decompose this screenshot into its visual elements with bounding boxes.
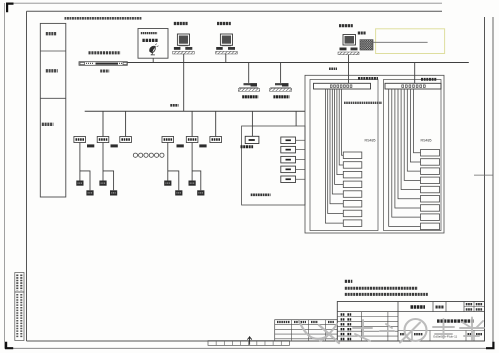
cabinet label 3 <box>42 123 54 126</box>
notes line 2 <box>345 293 428 296</box>
printer P1 <box>360 40 373 50</box>
title block header verticals <box>432 302 434 312</box>
frame inner bottom line <box>27 340 485 342</box>
signal panel II bar <box>385 83 441 89</box>
wire panel I feeder 6 <box>330 89 343 204</box>
svg-text:RS485: RS485 <box>421 139 432 143</box>
cabinet divider 2 <box>40 97 66 99</box>
wire drop to signal panel II <box>414 63 416 84</box>
frame inner top line <box>27 10 443 12</box>
title block bottom row <box>398 330 485 332</box>
wire panel I feeder 1 <box>342 89 344 155</box>
wire drop to bay device 1 <box>102 111 104 136</box>
wire ethernet bus <box>127 62 469 64</box>
wire tag 4 <box>199 144 206 147</box>
title block signature grid <box>337 316 398 318</box>
title block outer box <box>337 302 484 342</box>
protection relay B8 <box>421 214 440 221</box>
wire server1 drop to main bus <box>183 54 185 112</box>
protection relay B7 <box>421 205 440 212</box>
server 1 stand <box>179 45 188 47</box>
switch SW1 body <box>79 62 127 66</box>
frame inner right line <box>484 17 486 341</box>
wire panel II feeder 1 <box>414 89 421 153</box>
meter box upper <box>164 181 171 186</box>
protection relay B9 <box>421 223 440 230</box>
server 2 label <box>217 22 231 25</box>
cabinet column box <box>40 23 66 197</box>
driver 2 hatch bar <box>270 88 292 91</box>
signal panel outer cabinet <box>305 75 444 233</box>
signal panel cabinet I outline <box>310 80 378 231</box>
io module M5 <box>281 176 296 183</box>
protection relay A7 <box>343 210 362 217</box>
protection relay A2 <box>343 162 362 169</box>
protection relay A4 <box>343 181 362 188</box>
switch display segment <box>96 63 119 65</box>
wire tag 2 <box>111 144 118 147</box>
wire drop into UPS cabinet <box>295 111 297 126</box>
meter box lower <box>86 190 93 195</box>
cabinet label 2 <box>46 69 58 72</box>
wire panel I feeder 3 <box>337 89 343 175</box>
server 1 label <box>174 22 188 25</box>
UPS unit <box>245 136 259 143</box>
wire meter branch <box>192 171 201 190</box>
wire panel I feeder 2 <box>339 89 343 165</box>
signal panel II label <box>421 78 437 81</box>
title block project text <box>411 305 426 308</box>
wire io module 1 stub <box>296 139 306 141</box>
protection relay A1 <box>343 152 362 159</box>
UPS label <box>241 145 254 148</box>
remote server hatch bar <box>338 52 359 55</box>
io module M1 <box>281 137 296 144</box>
wire server2 drop to ethernet bus <box>225 54 227 63</box>
wire panel II feeder 6 <box>398 89 421 199</box>
server 1 keyboard <box>174 47 181 50</box>
signal panel I label <box>358 77 378 80</box>
wire panel II feeder 8 <box>392 89 421 217</box>
wire panel II feeder 9 <box>389 89 421 226</box>
GPS box title text <box>141 32 158 34</box>
protection relay B1 <box>421 150 440 157</box>
driver 2 label <box>273 95 289 98</box>
wire panel I feeder 7 <box>328 89 344 213</box>
protection relay B6 <box>421 196 440 203</box>
wire panel II feeder 5 <box>401 89 420 190</box>
GPS box label text <box>142 39 158 42</box>
cabinet label 1 <box>46 32 57 35</box>
wire meter branch <box>103 171 114 190</box>
wire io module 5 stub <box>296 178 306 180</box>
notes line 1 <box>345 287 418 290</box>
server 2 hatch bar <box>216 51 238 54</box>
border outer left line <box>4 3 6 349</box>
driver 1 hatch bar <box>238 88 259 91</box>
wire io module 2 stub <box>296 149 306 151</box>
title block main vertical <box>397 302 399 342</box>
wire printer cable <box>373 41 428 43</box>
wire meter riser <box>167 143 169 181</box>
GPS satellite dish icon <box>149 44 158 55</box>
wire drop to bay device 2 <box>125 111 127 136</box>
UPS cabinet note <box>251 194 271 197</box>
server 1 monitor <box>177 34 189 45</box>
wire io module 3 stub <box>296 159 306 161</box>
server 2 keyboard <box>216 47 223 50</box>
server 2 monitor <box>220 34 232 45</box>
protection relay B3 <box>421 168 440 175</box>
protection relay A8 <box>343 220 362 227</box>
wire meter branch <box>80 171 90 190</box>
protection relay A3 <box>343 171 362 178</box>
protection relay B5 <box>421 186 440 193</box>
protection relay B4 <box>421 177 440 184</box>
remote server monitor <box>343 35 356 46</box>
signal panel cabinet II outline <box>384 80 442 231</box>
protection relay A6 <box>343 201 362 208</box>
io module M2 <box>281 146 296 153</box>
border outer top line <box>6 2 442 4</box>
driver 2 device <box>275 83 282 85</box>
highlight rectangle <box>376 29 445 54</box>
driver 1 label <box>242 95 258 98</box>
meter box upper <box>76 181 83 186</box>
ethernet bus label <box>89 51 121 54</box>
meter box upper <box>99 181 106 186</box>
wire io module 4 stub <box>296 168 306 170</box>
wire panel I feeder 8 <box>325 89 343 223</box>
wire tag 3 <box>177 144 184 147</box>
server 2 stand <box>222 45 231 47</box>
top note text <box>65 17 142 20</box>
wire remote server drop to signal panel I <box>348 55 350 84</box>
wire panel II feeder 2 <box>410 89 420 162</box>
border outer bottom line <box>5 347 493 349</box>
UPS cabinet box <box>242 126 305 205</box>
wire meter riser <box>191 143 193 181</box>
io module M3 <box>281 156 296 163</box>
wire panel I feeder 5 <box>332 89 343 194</box>
bay device D3 <box>120 137 132 143</box>
wire drop to driver 2 <box>280 63 282 83</box>
node ellipsis circles <box>133 153 137 157</box>
protection relay A5 <box>343 191 362 198</box>
bay device D1 <box>74 137 86 143</box>
border outer right line <box>492 17 494 349</box>
bay device D2 <box>97 137 109 143</box>
wire meter riser <box>79 143 81 181</box>
wire GPS box to ethernet bus <box>152 58 154 62</box>
GPS clock box U-GPS <box>138 29 168 59</box>
wire drop to bay device 4 <box>215 111 217 136</box>
signal panel note <box>344 102 382 104</box>
remote server label <box>339 24 353 27</box>
meter box upper <box>189 181 196 186</box>
wire drop to UPS <box>251 111 253 136</box>
bay device D4 <box>162 137 174 143</box>
switch left port box <box>80 62 85 64</box>
drawing number strip lower box <box>15 292 24 341</box>
wire main trunk bus <box>85 110 305 112</box>
switch label <box>100 69 109 72</box>
title block drawing title text <box>437 319 474 322</box>
watermark <box>299 318 484 344</box>
bay device D6 <box>210 137 222 143</box>
io module M4 <box>281 166 296 173</box>
revision table header text <box>277 321 290 323</box>
revision table <box>275 320 338 341</box>
wire panel II feeder 4 <box>404 89 420 180</box>
trunk label near panel <box>329 67 337 70</box>
main trunk bus label <box>170 104 178 107</box>
switch right port box <box>123 62 127 64</box>
svg-text:RS485: RS485 <box>365 139 376 143</box>
fold mark center arrow <box>247 336 251 345</box>
title block header divider <box>337 311 484 313</box>
fold mark cells <box>208 341 289 346</box>
corner mark bottom-left <box>5 342 13 350</box>
notes title <box>345 280 353 283</box>
server 1 hatch bar <box>173 51 195 54</box>
meter box lower <box>175 190 182 195</box>
wire meter riser <box>102 143 104 181</box>
wire panel II feeder 3 <box>407 89 420 171</box>
printer label <box>358 32 366 35</box>
wire panel II feeder 7 <box>395 89 421 208</box>
wire exit tick right <box>474 174 493 176</box>
corner mark bottom-right <box>486 342 495 350</box>
frame inner left line <box>26 11 28 341</box>
bay device D5 <box>186 137 198 143</box>
svg-text:Gd0a6(B+P)ub-11: Gd0a6(B+P)ub-11 <box>433 335 458 339</box>
driver 1 device <box>244 83 251 85</box>
protection relay B2 <box>421 159 440 166</box>
meter box lower <box>110 190 117 195</box>
wire meter branch <box>168 171 179 190</box>
signal panel I bar <box>314 83 371 89</box>
remote server keyboard <box>340 48 347 51</box>
wire drop to bay device 3 <box>191 111 193 136</box>
meter box lower <box>197 190 204 195</box>
cabinet divider 1 <box>40 50 66 52</box>
wire tag 1 <box>87 144 94 147</box>
wire drop to driver 1 <box>248 63 250 83</box>
switch ports dots <box>86 62 94 64</box>
wire panel I feeder 4 <box>335 89 344 184</box>
corner mark top-left <box>6 3 14 13</box>
drawing number strip upper box <box>15 273 24 293</box>
